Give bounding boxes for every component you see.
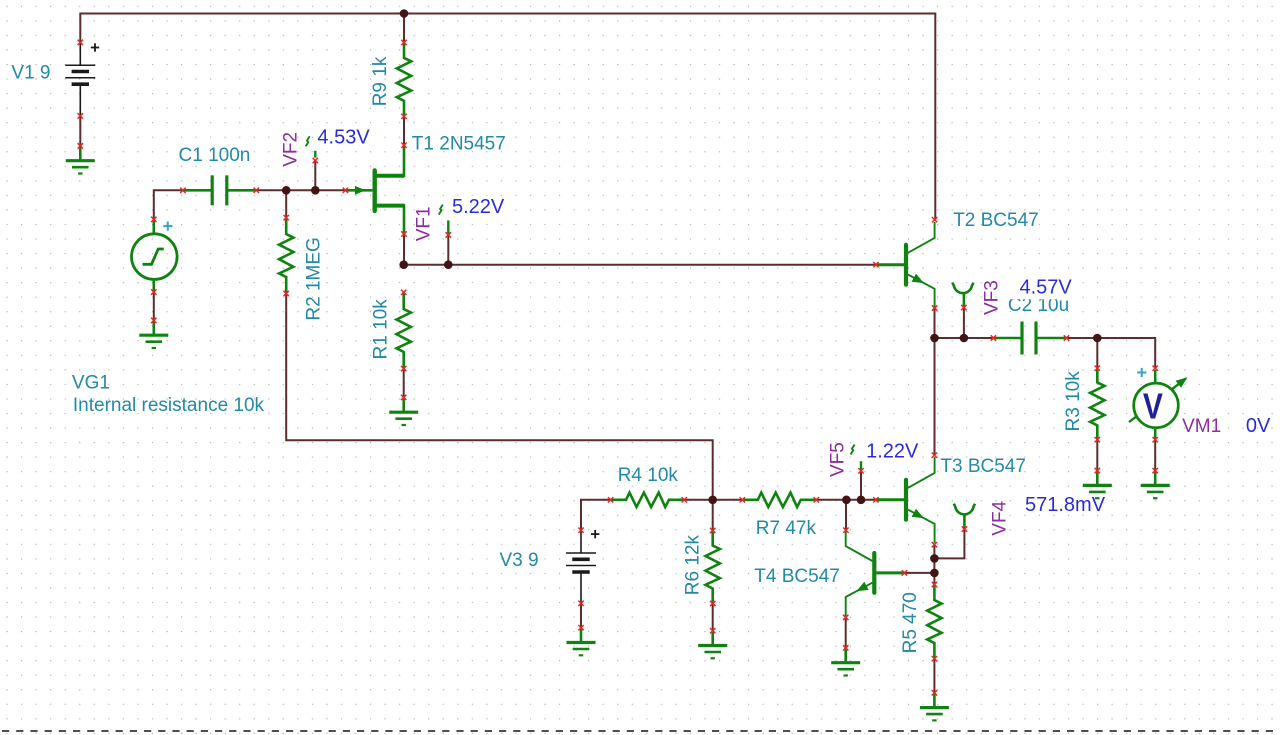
transistor T4 bbox=[876, 571, 904, 574]
svg-text:571.8mV: 571.8mV bbox=[1025, 494, 1106, 516]
wire VF3 stub bbox=[963, 308, 965, 338]
node T2 emitter T3 collector bbox=[930, 334, 939, 343]
svg-text:VF2: VF2 bbox=[281, 132, 302, 167]
svg-text:VF5: VF5 bbox=[828, 442, 849, 477]
svg-text:4.53V: 4.53V bbox=[317, 127, 370, 149]
voltage 4.53V bbox=[315, 126, 371, 147]
svg-text:VF1: VF1 bbox=[413, 206, 434, 241]
svg-text:V1 9: V1 9 bbox=[11, 62, 50, 83]
transistor T2 bbox=[876, 263, 904, 266]
svg-text:4.57V: 4.57V bbox=[1020, 276, 1073, 298]
svg-text:VF4: VF4 bbox=[990, 500, 1011, 535]
node R4 R6 R7 bbox=[708, 496, 717, 505]
svg-text:T4 BC547: T4 BC547 bbox=[754, 566, 840, 587]
resistor R2 bbox=[279, 218, 293, 294]
ground below VM1 bbox=[1154, 471, 1157, 485]
wire R2 top stub bbox=[285, 190, 287, 217]
wire R3 top stub bbox=[1096, 338, 1098, 368]
svg-text:5.22V: 5.22V bbox=[452, 196, 505, 218]
ground below R6 bbox=[711, 631, 714, 645]
capacitor C2 bbox=[993, 337, 1020, 340]
wire node to T4 collector bbox=[845, 500, 847, 530]
svg-text:VG1: VG1 bbox=[72, 372, 110, 393]
ground below R5 bbox=[933, 693, 936, 707]
svg-text:C1 100n: C1 100n bbox=[179, 145, 251, 166]
voltage 1.22V bbox=[864, 440, 920, 461]
wire node down to R6 bbox=[712, 500, 714, 531]
wire V3 negative to ground bbox=[580, 603, 582, 627]
resistor R6 bbox=[706, 531, 720, 604]
pin markers (red x) on all component pins bbox=[78, 40, 1158, 696]
resistor R9 bbox=[397, 43, 411, 117]
probe VF2 bbox=[314, 151, 316, 158]
voltage 4.57V bbox=[1006, 277, 1077, 300]
voltmeter VM1 bbox=[1154, 370, 1157, 383]
probe VF4 bbox=[954, 504, 975, 515]
probe VF1 bbox=[447, 220, 449, 235]
wire V3 positive to R4 bbox=[581, 500, 611, 530]
node R9 top rail bbox=[400, 9, 409, 18]
svg-text:T2 BC547: T2 BC547 bbox=[953, 210, 1039, 231]
svg-text:R2 1MEG: R2 1MEG bbox=[304, 237, 325, 320]
wire R5 bottom to ground bbox=[933, 659, 935, 693]
svg-text:V: V bbox=[1143, 385, 1163, 426]
wire R6 bottom to ground bbox=[712, 604, 714, 631]
ground below R1 bbox=[402, 397, 405, 411]
probe VF5 bbox=[860, 461, 862, 471]
resistor R3 bbox=[1090, 368, 1104, 440]
voltage 571.8mV bbox=[1023, 494, 1109, 515]
wire VF1 stub bbox=[447, 235, 449, 265]
node T1 source R1 bbox=[399, 260, 408, 269]
node VF3 branch bbox=[960, 334, 969, 343]
resistor R7 bbox=[742, 493, 816, 507]
capacitor C1 bbox=[183, 189, 211, 192]
wire VF5 stub bbox=[860, 471, 862, 500]
wire T4 base to R5 node bbox=[904, 572, 934, 574]
svg-text:R1 10k: R1 10k bbox=[371, 299, 392, 360]
battery V1 bbox=[79, 42, 81, 65]
wire VF2 stub bbox=[314, 161, 316, 191]
wire R3 bottom to ground bbox=[1096, 440, 1098, 471]
node VF5 branch bbox=[857, 496, 866, 505]
wire R2 bottom long run to bottom node bbox=[286, 294, 713, 500]
node VF1 mid rail bbox=[444, 260, 453, 269]
wire T3 emitter through nodes to R5 bbox=[933, 545, 935, 585]
wire VG1 bottom to ground bbox=[153, 292, 155, 320]
ground below R3 bbox=[1096, 471, 1099, 485]
wire node to C2 bbox=[935, 337, 994, 339]
resistor R5 bbox=[927, 585, 941, 659]
JFET T1 bbox=[345, 189, 372, 192]
svg-text:T1 2N5457: T1 2N5457 bbox=[412, 134, 506, 155]
node T4 base R5 bbox=[930, 569, 939, 578]
node VF2 at gate wire bbox=[311, 186, 320, 195]
svg-text:R9 1k: R9 1k bbox=[370, 56, 391, 106]
svg-text:VM1: VM1 bbox=[1182, 416, 1221, 437]
node R3 top bbox=[1093, 334, 1102, 343]
ground below T4 bbox=[844, 648, 847, 662]
ground below V3 bbox=[580, 628, 583, 642]
wire VG1 top to C1 bbox=[154, 190, 183, 219]
svg-text:VF3: VF3 bbox=[982, 280, 1003, 315]
svg-text:T3 BC547: T3 BC547 bbox=[940, 456, 1026, 477]
wire C2 to VM1 bbox=[1067, 338, 1156, 368]
svg-text:R5 470: R5 470 bbox=[900, 592, 921, 653]
battery V3 bbox=[580, 530, 582, 553]
node R2 at gate wire bbox=[282, 186, 291, 195]
wire T1 source down to node bbox=[403, 234, 405, 265]
wire VF4 to node bbox=[934, 529, 964, 558]
plus sign V3 bbox=[591, 533, 599, 535]
page boundary dashed line at bottom bbox=[2, 730, 1280, 732]
wire R9 top stub bbox=[403, 14, 405, 43]
svg-text:R4 10k: R4 10k bbox=[618, 465, 679, 486]
ground below V1 bbox=[79, 146, 82, 160]
wire T2 emitter to T3 collector bbox=[934, 308, 936, 455]
source VG1 bbox=[153, 219, 156, 233]
wire R4 to R7 through node bbox=[684, 499, 742, 501]
voltage 5.22V bbox=[450, 196, 506, 217]
svg-text:Internal resistance 10k: Internal resistance 10k bbox=[73, 395, 265, 416]
wire R7 to T3 base bbox=[816, 499, 876, 501]
wire top rail from V1 through R9 junction to T2 collector drop bbox=[80, 14, 935, 220]
plus sign VG1 bbox=[163, 225, 172, 227]
plus sign VM1 bbox=[1137, 372, 1146, 374]
svg-text:R3 10k: R3 10k bbox=[1063, 371, 1084, 432]
ground below VG1 bbox=[153, 320, 156, 334]
resistor R4 bbox=[611, 493, 685, 507]
svg-text:R6 12k: R6 12k bbox=[683, 534, 704, 595]
plus sign V1 bbox=[91, 47, 99, 49]
wire R1 bottom to ground bbox=[403, 369, 405, 398]
wire mid rail T1 source to T2 base bbox=[404, 264, 876, 266]
wire C1 to T1 gate bbox=[256, 189, 345, 191]
probe VF3 bbox=[952, 283, 973, 293]
wire VM1 bottom to ground bbox=[1154, 440, 1156, 471]
resistor R1 bbox=[397, 292, 411, 368]
node T4 collector branch bbox=[842, 496, 851, 505]
transistor T3 bbox=[876, 498, 904, 501]
wire V1 negative to ground bbox=[79, 116, 81, 146]
wire R9 bottom to T1 drain bbox=[403, 116, 405, 145]
wire T4 emitter to ground bbox=[845, 617, 847, 648]
node VF4 branch bbox=[930, 554, 939, 563]
svg-text:R7 47k: R7 47k bbox=[756, 518, 817, 539]
svg-text:1.22V: 1.22V bbox=[866, 440, 919, 462]
svg-text:V3 9: V3 9 bbox=[500, 550, 539, 571]
svg-text:0V: 0V bbox=[1246, 415, 1271, 437]
